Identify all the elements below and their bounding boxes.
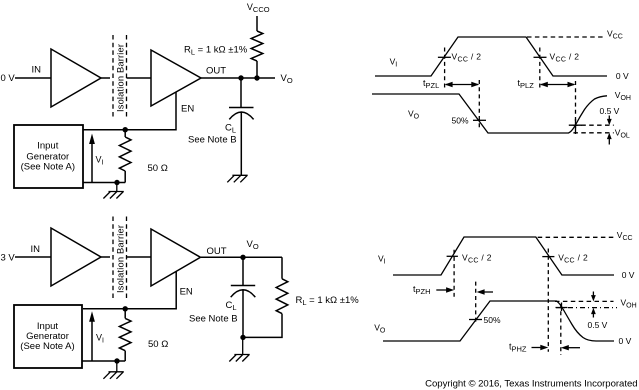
dashed vertical tPZH left xyxy=(453,250,455,297)
wire input 0V xyxy=(15,77,51,79)
arrowhead tPZH right inward xyxy=(477,289,485,294)
svg-text:0 V: 0 V xyxy=(616,71,629,81)
arrowhead VI xyxy=(89,134,95,145)
arrowhead tPLZ left xyxy=(540,82,548,87)
wire input 3V xyxy=(15,256,51,258)
arrow tPZH right tail xyxy=(483,291,493,293)
svg-text:VCC: VCC xyxy=(617,230,633,242)
arrowhead tPHZ right inward xyxy=(561,345,569,350)
capacitor CL xyxy=(229,78,254,175)
svg-text:CL: CL xyxy=(226,300,237,312)
buffer U1 xyxy=(51,49,101,107)
svg-text:VCC / 2: VCC / 2 xyxy=(558,253,588,265)
arrowhead tPZL left xyxy=(445,82,453,87)
svg-text:IN: IN xyxy=(31,244,41,255)
ground under 50 ohm xyxy=(103,183,123,199)
svg-text:VOL: VOL xyxy=(615,127,630,139)
buffer U2 xyxy=(151,50,201,106)
dash-dot VOH-0.5 level xyxy=(556,307,617,309)
tick 50 percent lower xyxy=(469,319,482,321)
buffer U3 xyxy=(51,228,101,286)
arrow tPLZ line xyxy=(541,84,574,86)
resistor 50 ohm xyxy=(119,130,131,183)
svg-text:(See Note A): (See Note A) xyxy=(20,341,74,352)
waveform VI lower xyxy=(393,237,614,275)
svg-text:Isolation Barrier: Isolation Barrier xyxy=(115,44,125,112)
input generator box xyxy=(14,125,83,188)
arrowhead tPHZ xyxy=(540,345,548,350)
resistor RL pullup xyxy=(251,16,263,78)
svg-text:EN: EN xyxy=(181,104,194,115)
arrowhead tPZL right xyxy=(471,82,479,87)
arrow tPHZ right tail xyxy=(567,347,580,349)
wire U3 to U4 xyxy=(101,256,151,258)
dashed VOL level xyxy=(573,132,613,134)
svg-text:tPZL: tPZL xyxy=(423,78,439,90)
dashed vertical tPZL left xyxy=(444,48,446,91)
resistor RL load xyxy=(243,257,288,337)
tick VCC/2 rising xyxy=(438,56,451,58)
svg-text:VCCO: VCCO xyxy=(247,2,270,14)
arrow VI line lower xyxy=(91,322,93,362)
svg-text:VI: VI xyxy=(378,254,386,266)
svg-text:50 Ω: 50 Ω xyxy=(148,163,168,174)
svg-text:EN: EN xyxy=(180,286,193,297)
svg-text:Input: Input xyxy=(37,141,58,152)
junction dot gen-gnd lower xyxy=(114,358,119,363)
svg-text:0.5 V: 0.5 V xyxy=(588,320,608,330)
waveform VO lower xyxy=(383,301,614,341)
svg-text:0 V: 0 V xyxy=(619,336,632,346)
tick curve VOH-0.5 crossing xyxy=(556,303,568,312)
svg-text:VI: VI xyxy=(96,155,104,167)
isolation barrier dashed lines xyxy=(113,35,127,118)
svg-text:Isolation Barrier: Isolation Barrier xyxy=(115,225,125,293)
junction dot OUT-RL xyxy=(254,75,259,80)
arrowhead down 0.5V lower xyxy=(591,295,596,301)
junction dot gen-gnd xyxy=(114,180,119,185)
junction dot EN-50ohm lower xyxy=(123,306,128,311)
svg-text:VO: VO xyxy=(408,108,420,120)
svg-text:VCC: VCC xyxy=(607,29,623,41)
waveform VI upper xyxy=(375,37,607,76)
wire generator bottom lower xyxy=(82,360,125,362)
junction dot CL-RL-gnd xyxy=(240,335,245,340)
tick VCC/2 rising lower xyxy=(447,255,458,257)
svg-text:VCC / 2: VCC / 2 xyxy=(452,52,482,64)
resistor 50 ohm lower xyxy=(119,309,131,361)
svg-text:tPLZ: tPLZ xyxy=(518,78,535,90)
svg-text:0 V: 0 V xyxy=(622,270,635,280)
arrowhead up 0.5V lower xyxy=(591,308,596,314)
svg-text:VCC / 2: VCC / 2 xyxy=(462,253,492,265)
arrowhead VI lower xyxy=(89,311,95,322)
arrow up 0.5V lower line xyxy=(592,314,594,318)
svg-text:VI: VI xyxy=(96,333,104,345)
svg-text:VOH: VOH xyxy=(615,90,631,102)
svg-text:IN: IN xyxy=(32,65,42,76)
junction dot OUT-CL xyxy=(238,75,243,80)
svg-text:VOH: VOH xyxy=(621,298,637,310)
arrow down 0.5V lower line xyxy=(592,292,594,296)
waveform VO upper xyxy=(372,94,607,133)
svg-text:VO: VO xyxy=(247,239,259,251)
ground under CL-RL xyxy=(229,337,249,361)
arrow VI line xyxy=(91,144,93,184)
wire U1 to U2 xyxy=(101,77,151,79)
arrow down 0.5V upper line xyxy=(608,116,610,120)
arrow tPZH tail xyxy=(436,289,451,291)
wire EN xyxy=(83,92,176,130)
svg-text:VCC / 2: VCC / 2 xyxy=(550,52,580,64)
dashed vertical tPZL right xyxy=(478,80,480,128)
dashed VOL+0.5 level xyxy=(573,124,613,126)
input generator box lower xyxy=(14,305,82,368)
arrowhead up 0.5V upper xyxy=(607,133,612,139)
wire OUT node lower xyxy=(201,256,282,258)
dashed vertical tPLZ left xyxy=(539,48,541,91)
junction dot OUT-CL lower xyxy=(240,255,245,260)
dashed vertical tPHZ right xyxy=(560,304,562,355)
svg-text:50%: 50% xyxy=(484,315,501,325)
svg-text:tPZH: tPZH xyxy=(413,284,431,296)
arrowhead tPLZ right xyxy=(568,82,576,87)
dashed vertical tPHZ left xyxy=(547,249,549,352)
svg-text:3 V: 3 V xyxy=(1,253,16,264)
tick VCC/2 falling xyxy=(534,56,547,58)
ground under 50 ohm lower xyxy=(103,361,123,379)
dashed vertical tPZH right xyxy=(475,282,477,323)
svg-text:CL: CL xyxy=(225,123,236,135)
tick VCC/2 falling lower xyxy=(542,256,554,258)
dashed VOH level xyxy=(555,300,614,302)
tick curve VOL+0.5 crossing xyxy=(569,119,582,132)
wire EN lower xyxy=(83,272,176,309)
svg-text:VO: VO xyxy=(374,323,386,335)
arrow up 0.5V upper line xyxy=(608,139,610,145)
arrow tPZL line xyxy=(446,84,478,86)
svg-text:See Note B: See Note B xyxy=(189,314,238,325)
capacitor CL lower xyxy=(231,257,256,337)
arrowhead down 0.5V upper xyxy=(607,119,612,125)
ground under CL xyxy=(227,175,247,182)
dashed VCC level lower xyxy=(538,236,615,238)
svg-text:0 V: 0 V xyxy=(1,73,16,84)
tick 50 percent upper xyxy=(473,119,486,121)
wire generator bottom xyxy=(83,182,125,184)
svg-text:OUT: OUT xyxy=(206,66,226,77)
dashed vertical tPLZ right xyxy=(575,81,577,134)
buffer U4 xyxy=(151,229,201,286)
dashed VCC level upper xyxy=(527,36,603,38)
isolation barrier dashed lines lower xyxy=(113,217,127,299)
svg-text:RL = 1 kΩ ±1%: RL = 1 kΩ ±1% xyxy=(184,45,248,57)
arrowhead tPZH xyxy=(446,287,454,292)
svg-text:0.5 V: 0.5 V xyxy=(600,106,620,116)
svg-text:50%: 50% xyxy=(452,116,469,126)
svg-text:50 Ω: 50 Ω xyxy=(148,339,168,350)
svg-text:See Note B: See Note B xyxy=(188,135,237,146)
svg-text:(See Note A): (See Note A) xyxy=(21,162,75,173)
junction dot EN-50ohm xyxy=(123,127,128,132)
svg-text:VI: VI xyxy=(390,57,398,69)
svg-text:tPHZ: tPHZ xyxy=(509,342,527,354)
svg-text:OUT: OUT xyxy=(207,246,227,257)
wire OUT node xyxy=(201,77,275,79)
svg-text:RL = 1 kΩ ±1%: RL = 1 kΩ ±1% xyxy=(296,295,360,307)
arrow tPHZ tail xyxy=(532,347,547,349)
svg-text:Copyright © 2016, Texas Instru: Copyright © 2016, Texas Instruments Inco… xyxy=(425,378,638,389)
svg-text:VO: VO xyxy=(281,73,293,85)
